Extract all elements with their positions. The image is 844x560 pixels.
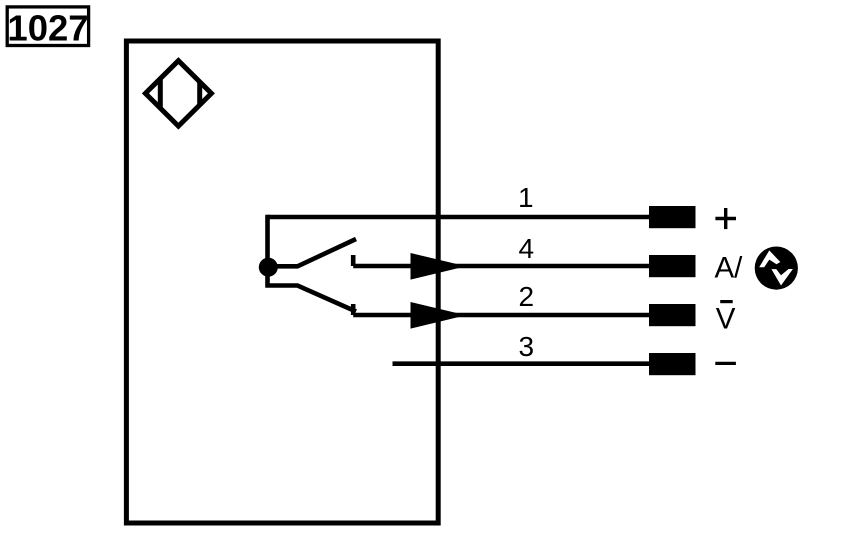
- svg-text:2: 2: [519, 281, 535, 312]
- node (common pole dot): [259, 258, 278, 277]
- label + (supply plus): [715, 208, 736, 229]
- contact tick pin 2: [351, 304, 356, 315]
- svg-text:1: 1: [518, 182, 534, 213]
- wire (vertical drop from wire 1 to node): [265, 215, 270, 267]
- wire 3 (horizontal to terminal -): [393, 361, 652, 366]
- logo (black circle with zigzag chevrons): [755, 247, 798, 290]
- svg-text:V: V: [716, 303, 736, 336]
- figure number box 1027: [7, 7, 88, 49]
- svg-text:A/: A/: [715, 252, 744, 285]
- arrow on wire 2: [411, 302, 467, 329]
- label - (supply minus): [715, 362, 736, 365]
- terminal box pin 2: [649, 304, 696, 326]
- wire 4 (horizontal to terminal A): [353, 264, 651, 269]
- contact tick pin 4: [351, 255, 356, 266]
- terminal box pin 1: [649, 206, 696, 228]
- wire 1 (horizontal to terminal +): [268, 215, 652, 220]
- proximity sensor symbol (diamond): [145, 61, 211, 126]
- terminal box pin 4: [649, 255, 696, 277]
- svg-text:3: 3: [519, 331, 535, 362]
- wire 2 (horizontal to terminal V): [353, 313, 651, 318]
- arrow on wire 4: [411, 253, 467, 280]
- terminal box pin 3: [649, 353, 696, 375]
- switch lever (open contact to pin 4): [268, 239, 356, 266]
- switch lever (closed contact to pin 2): [268, 266, 357, 312]
- label V with overbar (analog voltage): [716, 302, 736, 336]
- svg-text:4: 4: [519, 233, 535, 264]
- sensor body rectangle: [126, 41, 438, 523]
- svg-text:1027: 1027: [7, 8, 88, 49]
